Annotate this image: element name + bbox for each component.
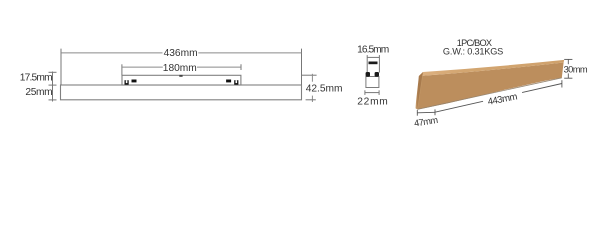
box left end cap [415, 72, 423, 109]
center sensor dot [179, 75, 182, 77]
47mm label [413, 115, 439, 129]
box front face [418, 63, 564, 110]
47mm & 443mm dimension chain [417, 111, 435, 114]
svg-text:17.5mm: 17.5mm [20, 73, 52, 84]
right magnet block [226, 80, 231, 83]
section body [366, 77, 379, 88]
svg-text:25mm: 25mm [25, 87, 52, 98]
lamp body bar [61, 85, 302, 100]
section top cap [369, 62, 378, 65]
svg-text:16.5mm: 16.5mm [357, 45, 389, 56]
svg-text:180mm: 180mm [163, 63, 197, 74]
box top face strip [419, 60, 564, 76]
track adapter top rectangle [122, 75, 241, 85]
42.5mm dimension [302, 74, 317, 76]
svg-text:G.W.: 0.31KGS: G.W.: 0.31KGS [443, 47, 503, 57]
443mm label [482, 90, 523, 106]
17.5mm / 25mm stacked dimension [52, 72, 54, 102]
svg-text:22mm: 22mm [357, 96, 388, 107]
svg-text:47mm: 47mm [413, 115, 439, 129]
svg-text:443mm: 443mm [487, 91, 519, 108]
436mm dimension [60, 49, 62, 85]
box bottom chord outline [418, 78, 562, 110]
svg-text:30mm: 30mm [564, 64, 588, 74]
22mm dimension line [365, 92, 379, 94]
section side walls [366, 55, 368, 72]
svg-text:42.5mm: 42.5mm [306, 84, 343, 95]
left clip bracket [125, 80, 129, 85]
180mm dimension [121, 64, 123, 75]
30mm dimension [567, 59, 569, 64]
section side magnets [366, 72, 370, 77]
svg-text:436mm: 436mm [164, 48, 198, 59]
16.5mm dimension line [367, 56, 379, 58]
left magnet block [132, 80, 137, 83]
box front-left edge highlight [418, 75, 423, 110]
right clip bracket [234, 80, 238, 85]
